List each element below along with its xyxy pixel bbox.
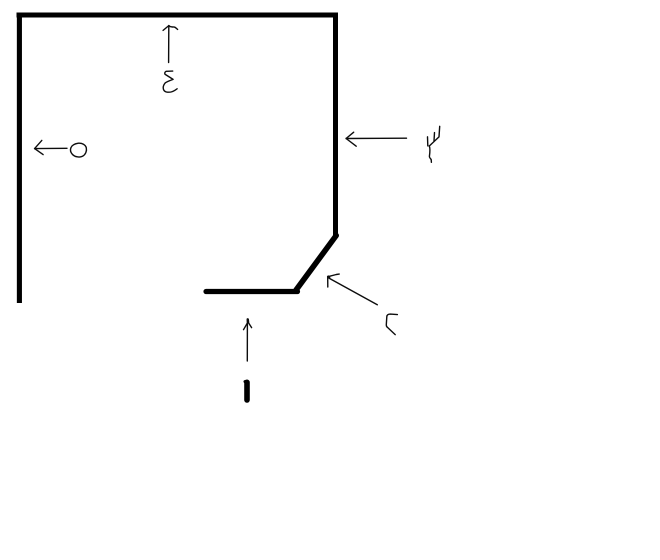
numeral 2 label (٢): [386, 314, 397, 335]
numeral 3 label (٣): [163, 71, 177, 92]
arrow to chamfer edge (label 2): [328, 274, 378, 305]
arrow to bottom edge (label 1): [244, 319, 252, 361]
bottom edge of shape: [206, 289, 298, 294]
top edge of shape: [17, 13, 339, 18]
numeral 5 label (٥): [71, 143, 87, 157]
arrow to right edge (label 4): [346, 132, 406, 146]
numeral 4 label (٤): [428, 126, 440, 162]
left edge of shape: [17, 13, 22, 303]
arrow to left edge (label 5): [35, 140, 67, 154]
chamfer diagonal edge: [296, 236, 336, 290]
right edge of shape: [333, 13, 338, 238]
arrow to top edge (label 3): [163, 26, 178, 63]
numeral 1 label (١): [245, 381, 247, 400]
